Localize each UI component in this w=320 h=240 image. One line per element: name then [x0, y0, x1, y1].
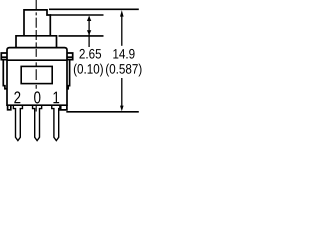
14.9 dimension arrow upper [121, 13, 123, 46]
pin label 1 [53, 92, 59, 104]
dimension text 14.9 [113, 49, 134, 59]
left ear slot [1, 56, 7, 58]
body seam line [7, 59, 67, 61]
pin 1 (right) [52, 105, 61, 140]
plunger outline [24, 10, 50, 36]
dimension text (0.10) [74, 64, 103, 77]
pin 0 (middle) [33, 105, 42, 140]
14.9 dimension arrow lower [121, 78, 123, 108]
left boss [8, 105, 11, 110]
left rib [3, 60, 7, 89]
right ear slot [67, 56, 73, 58]
extension line B (plunger step) [50, 14, 104, 16]
extension line A (plunger top) [49, 8, 139, 10]
seating plane line [66, 111, 139, 113]
2.65 dimension arrow [88, 17, 90, 48]
right boss [60, 105, 67, 110]
body outline [7, 48, 67, 106]
pin label 0 [34, 91, 40, 103]
right ear [67, 53, 73, 60]
left ear [1, 53, 7, 60]
window [21, 66, 52, 83]
pin 2 (left) [13, 105, 22, 140]
dimension lines [49, 9, 139, 112]
dimension text 2.65 [80, 49, 102, 59]
centerline [35, 0, 37, 112]
right rib [67, 60, 70, 89]
shoulder step [16, 36, 57, 48]
extension line C (shoulder top) [59, 35, 104, 37]
pin label 2 [14, 91, 20, 103]
dimension text (0.587) [106, 64, 141, 77]
